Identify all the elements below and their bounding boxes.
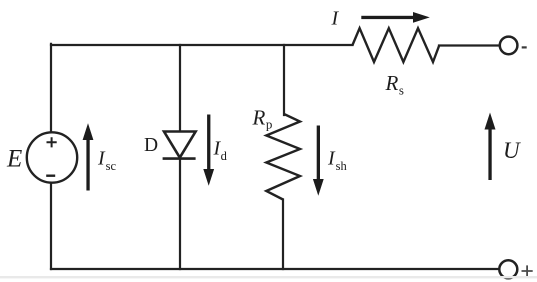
svg-text:Ish: Ish [327,148,348,174]
diode D [163,132,196,159]
svg-text:I: I [331,8,340,30]
wire diode branch lower [179,159,181,270]
terminal positive [499,260,517,278]
wire diode branch upper [179,45,181,131]
svg-text:Rs: Rs [385,71,404,98]
arrow I [361,12,430,23]
wire Rp branch upper [283,45,285,115]
wire Rs to negative terminal [439,44,500,46]
wire top bus left [51,44,353,46]
scan artifact band [0,276,537,278]
label plus [522,265,533,276]
svg-text:Isc: Isc [97,148,117,174]
svg-text:Id: Id [213,138,228,164]
wire bottom bus [51,268,500,270]
resistor Rp [266,114,300,200]
svg-text:U: U [503,138,521,163]
wire left vertical upper [50,44,52,132]
arrow Isc [83,123,94,190]
wire Rp branch lower [282,200,284,270]
terminal negative [500,37,518,55]
arrow Ish [313,126,324,196]
svg-text:D: D [144,135,158,156]
wire left vertical lower [50,183,52,269]
svg-text:Rp: Rp [252,106,273,132]
label minus [522,46,527,48]
resistor Rs [352,28,439,62]
current source E [27,132,77,182]
arrow Id [203,115,214,186]
arrow U [485,113,496,181]
svg-text:E: E [6,146,22,173]
